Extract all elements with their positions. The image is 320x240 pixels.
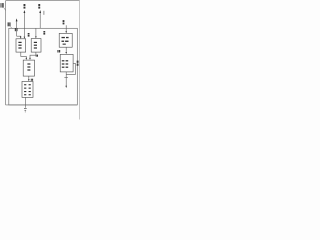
page top border: [5, 0, 79, 2]
arrowhead into box E (right): [29, 58, 31, 60]
crossing tick on wire: [64, 76, 68, 78]
label 18 (right of box B top, vertical): [43, 31, 45, 35]
box E text: [27, 63, 30, 70]
box B: [31, 39, 41, 53]
IC enclosure 12: [9, 28, 78, 105]
arrowhead into box E (left): [26, 58, 28, 60]
wire W2 (port out, right): [39, 12, 41, 28]
system boundary left line: [5, 1, 7, 105]
wire box C to box D: [65, 47, 67, 52]
box D text: [62, 60, 68, 68]
wire box F to ground: [24, 97, 26, 107]
label 12: [15, 28, 18, 31]
arrowhead into box A (left): [20, 37, 22, 39]
arrowhead down (end of wire): [65, 86, 67, 88]
label 16 (between box A and B inputs, vertical): [28, 33, 30, 37]
label 20: [36, 55, 38, 57]
arrowhead up W2: [39, 10, 41, 13]
label 14: [8, 22, 11, 26]
label 18 (above wire W2, vertical): [38, 4, 40, 9]
arrowhead into box C: [65, 31, 67, 33]
label 24: [57, 50, 60, 53]
leader line for label 10: [4, 8, 6, 10]
system boundary bottom line: [6, 104, 78, 106]
box F text (two columns): [24, 84, 31, 95]
label 10: [0, 3, 4, 8]
box C text: [62, 37, 69, 45]
box C: [59, 33, 72, 47]
wire box A to box E: [21, 52, 27, 58]
box A text: [18, 42, 21, 49]
wire W3 into box C: [65, 25, 67, 32]
box B text: [34, 42, 37, 49]
box E: [23, 60, 34, 76]
page right border: [79, 1, 81, 120]
wire W0 jog into box A: [17, 36, 21, 37]
label 16 (above wire W1, vertical): [24, 4, 26, 9]
wire W0 (port out, left): [16, 21, 18, 36]
box A: [16, 39, 26, 52]
ground symbol: [24, 109, 27, 112]
arrowhead into box D: [65, 52, 67, 54]
wire W1 (port out, middle): [23, 12, 25, 36]
label 22: [31, 79, 33, 81]
label 28 (above wire W3): [63, 20, 65, 24]
arrowhead up W0: [16, 18, 18, 21]
label 26 (right edge, vertical): [77, 61, 79, 66]
arrowhead up W1: [24, 10, 26, 13]
arrowhead into box A (right): [24, 37, 26, 39]
box F: [22, 81, 33, 97]
wire box B to box E: [30, 52, 36, 58]
wire box E to box F: [28, 76, 30, 80]
wire box D output right loop: [66, 63, 75, 74]
arrowhead into box B: [35, 36, 37, 38]
wire into box B: [35, 28, 37, 36]
stray mark right of wire W2: [43, 11, 44, 15]
wire box D down: [65, 72, 67, 86]
box D: [60, 54, 73, 72]
arrowhead into box F: [28, 79, 30, 81]
leader line for label 14: [10, 27, 12, 29]
